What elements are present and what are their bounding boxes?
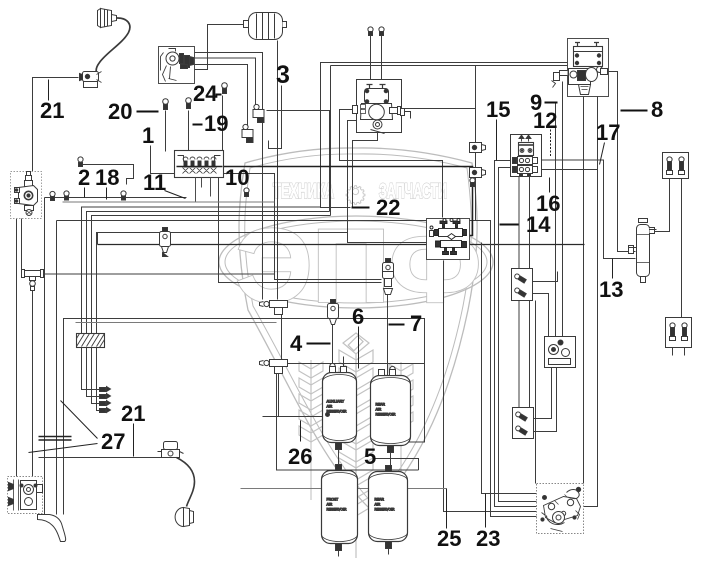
wire label13 leader [612, 259, 614, 279]
svg-text:13: 13 [599, 277, 623, 302]
wire reservoir1 port2 stub [343, 357, 345, 373]
svg-text:REAR: REAR [376, 403, 386, 407]
svg-text:14: 14 [526, 212, 551, 237]
wire manifold to small valve [219, 177, 382, 283]
bolts above brake valve [368, 27, 384, 36]
svg-text:20: 20 [108, 99, 132, 124]
wire 9 pipe down to C21 [555, 104, 557, 337]
compressor U1 [159, 47, 195, 84]
pedal foot bracket [38, 515, 66, 542]
svg-text:21: 21 [121, 401, 145, 426]
wire C6 funnel drop [583, 96, 585, 484]
wire label1 pipe [151, 146, 382, 280]
wire dryer bottom drop [277, 41, 279, 300]
brake chamber cylinder right [629, 219, 657, 283]
brake pedal valve bottom-left [8, 477, 43, 514]
coupling spiral hose [177, 458, 195, 507]
wire gray line y322 [76, 322, 277, 324]
svg-text:1: 1 [142, 123, 154, 148]
wire cylinder to fitting boxA [649, 179, 670, 232]
svg-text:4: 4 [290, 331, 303, 356]
wire label6 leader [358, 327, 360, 369]
wire label18 leader [106, 188, 108, 200]
wire long line y220 to C24 [57, 221, 538, 517]
wire brake valve right out [402, 108, 476, 110]
svg-text:AUXILIARY: AUXILIARY [327, 400, 345, 404]
screw fittings on y201 [50, 191, 55, 200]
horn/pump unit [80, 72, 102, 88]
check valve under 4 [328, 300, 339, 325]
wire label3 leader pipe [269, 86, 282, 149]
wire hand valve to fittings C23 b [529, 177, 531, 408]
quick release valve mid-right [545, 337, 576, 368]
wire C6 left port down to C21 [562, 82, 564, 337]
wire brake valve bottom to label22 [353, 133, 378, 208]
svg-text:2: 2 [78, 165, 90, 190]
watermark wheat stalk center [339, 333, 373, 558]
svg-text:RESERVOIR: RESERVOIR [376, 413, 396, 417]
wire governor tee down [21, 219, 23, 271]
coupling head plug [175, 508, 193, 527]
wire bus y318 left corner [64, 319, 425, 515]
wire bundle D [97, 233, 348, 411]
wire hand valve left line1 [495, 161, 538, 507]
svg-text:AIR: AIR [375, 503, 381, 507]
wire hand valve left line2 [499, 168, 538, 502]
wire bundle E black [97, 233, 99, 245]
fitting box C23 [513, 408, 534, 439]
air dryer tank [244, 13, 287, 40]
wire brake valve left port down [348, 121, 428, 243]
svg-text:26: 26 [288, 444, 312, 469]
svg-text:23: 23 [476, 526, 500, 551]
svg-text:REAR: REAR [375, 498, 385, 502]
screw fitting 19 [186, 98, 192, 109]
wire front line y197 [45, 197, 187, 199]
wire tee2 drop [278, 374, 280, 417]
wire C23 to C21 a [533, 367, 552, 419]
svg-text:AIR: AIR [327, 503, 333, 507]
air distribution valve top-right U2 [552, 39, 609, 97]
wire check valve to reservoir1 [332, 323, 334, 373]
wire hand valve right line2 [542, 169, 598, 171]
wire trailer hose line [39, 457, 162, 459]
wire C22 fittings lines [532, 272, 558, 282]
wire label23 leader [485, 494, 487, 528]
wire label5 pipe [376, 459, 419, 471]
watermark gear [346, 186, 365, 205]
small protection valve center [383, 259, 394, 295]
wire label21 leader [48, 80, 50, 101]
svg-text:RESERVOIR: RESERVOIR [375, 508, 395, 512]
svg-text:21: 21 [40, 98, 64, 123]
dash label14 [500, 224, 519, 226]
wire C6 bottom right drop to C24 [584, 88, 598, 507]
tee fitting left [22, 270, 44, 291]
elbow fitting E2 [242, 124, 253, 142]
wire compressor out 3 [189, 65, 248, 126]
wire small valve pipe to reservoir2 [387, 295, 389, 376]
wire long pipe C6 to frame [321, 63, 568, 208]
svg-text:18: 18 [95, 165, 119, 190]
wire reservoir4 bottom stub [388, 549, 390, 555]
svg-text:15: 15 [486, 97, 510, 122]
manifold port drops [196, 178, 211, 202]
wire dryer right stub [282, 24, 286, 26]
watermark inner shield outline [245, 154, 472, 504]
watermark outer shield outline [239, 148, 477, 512]
svg-text:6: 6 [352, 304, 364, 329]
hand brake valve U3 [511, 135, 542, 177]
dash label4 [307, 343, 331, 345]
fitting box right A [663, 153, 689, 179]
svg-text:24: 24 [193, 81, 218, 106]
wire reservoir3 bottom stub [338, 551, 340, 557]
wire label25 leader [446, 489, 448, 529]
wire tee1 to tee2 [281, 315, 283, 360]
svg-text:8: 8 [651, 97, 663, 122]
watermark ellipse band [219, 216, 493, 308]
bundle end connectors [100, 387, 111, 413]
screw fitting 24 [222, 83, 228, 94]
wire label26 leader [300, 421, 302, 442]
clamp bracket b [470, 168, 486, 178]
brake valve P1 [353, 80, 411, 134]
air reservoir auxiliary [323, 367, 357, 450]
screw fitting on y164 [78, 157, 83, 167]
svg-text:22: 22 [376, 195, 400, 220]
wire left drop a [44, 198, 46, 515]
fitting box right B [666, 318, 692, 348]
wire v330 drop [330, 66, 332, 216]
label dashes [137, 95, 648, 344]
wire C9 bottom drop to C24 [444, 261, 538, 512]
wire C6 right to cylinder [608, 72, 636, 252]
svg-text:19: 19 [204, 111, 228, 136]
wire elbow1 to down pipe [267, 111, 330, 212]
wire C22 down along box [535, 301, 537, 484]
svg-text:7: 7 [410, 311, 422, 336]
wire clamp riser [475, 66, 477, 221]
svg-text:AIR: AIR [376, 408, 382, 412]
dash label7 [389, 324, 405, 326]
wire fitting boxA to boxB [681, 179, 683, 318]
dash label8 [621, 110, 648, 112]
tee fitting T2 [260, 360, 288, 374]
wire reservoir1 left feed [263, 416, 323, 418]
svg-text:27: 27 [101, 429, 125, 454]
wire reservoir top feed line [288, 363, 425, 365]
watermark shield logo [219, 148, 493, 512]
wire label16 leader [549, 178, 551, 193]
svg-text:17: 17 [596, 120, 620, 145]
hatched frame block [77, 334, 105, 348]
air reservoir rear lower [369, 466, 408, 549]
trailer air coupling [158, 442, 184, 458]
divider bar [39, 437, 72, 441]
wire reservoir2 bottom to reservoir4 [390, 446, 392, 472]
air reservoir rear upper [371, 370, 411, 453]
dash label22 [352, 207, 370, 209]
svg-text:RESERVOIR: RESERVOIR [327, 410, 347, 414]
bolt fitting on reservoir2 port [390, 366, 395, 376]
clamp bracket a [470, 143, 486, 153]
wire C23 to C21 b [533, 367, 557, 432]
dash label19 [193, 124, 203, 126]
wire label21b leader [133, 424, 135, 457]
wire extra gray line y201 [63, 201, 275, 203]
watermark wheat stalk left [299, 360, 323, 500]
wire label12 leader [550, 130, 552, 157]
svg-text:AIR: AIR [327, 405, 333, 409]
wire label20 drop [165, 111, 167, 152]
dash label20 [137, 111, 159, 113]
screw fitting near 10 [470, 178, 475, 187]
wire label17 leader [600, 143, 605, 165]
wire hand valve right line1 [542, 160, 636, 259]
wire brake valve top feed [340, 110, 443, 218]
svg-text:25: 25 [437, 526, 461, 551]
wire mid drop b [482, 243, 538, 494]
wire hidden line y488 [241, 488, 447, 490]
svg-text:5: 5 [364, 444, 376, 469]
wire compressor out 1 [189, 53, 263, 300]
svg-text:12: 12 [533, 108, 557, 133]
trailer control valve bottom-right [537, 484, 584, 534]
governor valve left [11, 172, 42, 219]
wire bundle C [92, 216, 331, 404]
air reservoir front [322, 465, 358, 551]
svg-text:RESERVOIR: RESERVOIR [327, 508, 347, 512]
watermark wheat stalk right [389, 362, 413, 500]
wire second top line [331, 65, 568, 67]
tee fitting T1 [260, 301, 288, 315]
svg-text:3: 3 [276, 61, 290, 89]
wire bolt drops into brake valve [370, 35, 372, 80]
fitting box C22 [512, 269, 533, 301]
wire label11 leader [165, 191, 186, 199]
wire horn hose to governor [33, 78, 79, 173]
wire hand valve to fittings C23 a [518, 177, 520, 408]
wire reservoir1 bottom to reservoir3 [338, 443, 340, 471]
screw fitting y173 line [244, 188, 249, 197]
wire label19 drop [188, 111, 190, 152]
wire tee2 to reservoir4 top [277, 374, 419, 471]
wire label27 leader b [29, 444, 98, 453]
wire left drop b [56, 221, 58, 515]
wire main black bus y166 [176, 167, 473, 236]
connector plug top-left [98, 9, 117, 28]
wire governor down [16, 219, 18, 477]
dash label24 [216, 94, 222, 96]
wire tee left to center [44, 273, 275, 275]
wire tee drop [32, 291, 34, 477]
wire bracket line y164 [83, 165, 134, 185]
svg-text:FRONT: FRONT [327, 498, 339, 502]
check valve left mid [160, 228, 171, 257]
wire label27 leader a [61, 401, 98, 439]
distribution valve center U4 [427, 219, 470, 260]
wire air dryer to compressor [195, 25, 249, 70]
svg-text:ТЕХНИКА: ТЕХНИКА [273, 180, 334, 203]
wire compressor out 2 [189, 58, 256, 107]
wire boxB stubs [673, 348, 685, 356]
wire bundle A [82, 207, 321, 390]
svg-text:11: 11 [143, 170, 166, 195]
wire label2 leader [84, 188, 86, 198]
elbow fitting E1 [253, 104, 264, 122]
wire label24 drop [222, 96, 224, 152]
bolt fitting on reservoir1 port [330, 363, 335, 373]
protection valve manifold [175, 151, 224, 178]
wire label9 leader [545, 102, 558, 104]
svg-text:10: 10 [225, 165, 249, 190]
wire label15 leader [496, 120, 498, 161]
screw fitting 20 [163, 99, 169, 110]
wire bundle B [87, 212, 330, 397]
coiled hose [96, 18, 130, 73]
